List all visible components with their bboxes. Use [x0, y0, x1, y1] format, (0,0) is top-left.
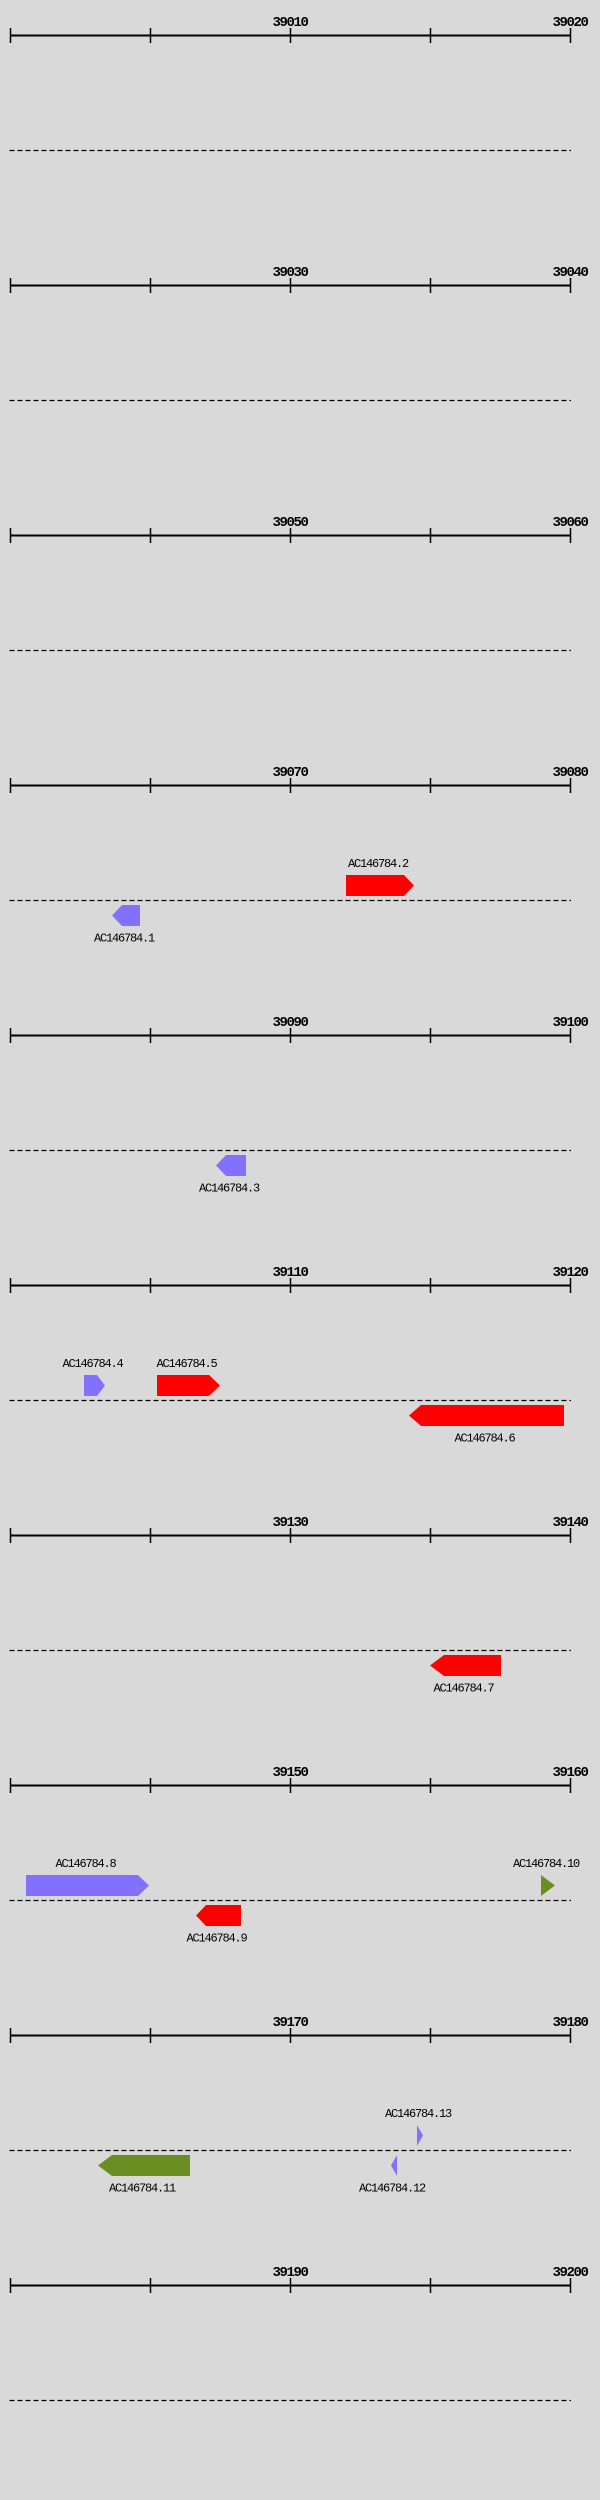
svg-text:39080: 39080: [552, 765, 588, 781]
gene feature arrow AC146784.11: [98, 2155, 190, 2176]
ruler axis panel 9: [10, 2028, 571, 2043]
svg-text:39070: 39070: [272, 765, 308, 781]
gene feature arrow AC146784.2: [346, 875, 414, 896]
svg-text:39110: 39110: [272, 1265, 308, 1281]
svg-text:39120: 39120: [552, 1265, 588, 1281]
svg-text:AC146784.8: AC146784.8: [55, 1857, 116, 1871]
ruler axis panel 5: [10, 1028, 571, 1043]
svg-text:39010: 39010: [272, 15, 308, 31]
gene feature arrow AC146784.4: [84, 1375, 105, 1396]
dashed sequence midline panel 1: [10, 150, 572, 152]
svg-text:AC146784.7: AC146784.7: [433, 1682, 494, 1696]
dashed sequence midline panel 6: [10, 1400, 572, 1402]
dashed sequence midline panel 3: [10, 650, 572, 652]
svg-text:39050: 39050: [272, 515, 308, 531]
svg-text:39100: 39100: [552, 1015, 588, 1031]
ruler axis panel 6: [10, 1278, 571, 1293]
gene feature arrow AC146784.9: [196, 1905, 241, 1926]
svg-text:AC146784.9: AC146784.9: [186, 1932, 247, 1946]
ruler axis panel 7: [10, 1528, 571, 1543]
gene feature arrow AC146784.6: [409, 1405, 564, 1426]
svg-text:39090: 39090: [272, 1015, 308, 1031]
svg-text:39200: 39200: [552, 2265, 588, 2281]
svg-text:AC146784.1: AC146784.1: [94, 932, 155, 946]
gene feature arrow AC146784.10: [541, 1875, 555, 1896]
dashed sequence midline panel 8: [10, 1900, 572, 1902]
svg-text:AC146784.2: AC146784.2: [348, 857, 409, 871]
svg-text:AC146784.6: AC146784.6: [454, 1432, 515, 1446]
gene feature arrow AC146784.5: [157, 1375, 220, 1396]
ruler axis panel 10: [10, 2278, 571, 2293]
ruler axis panel 8: [10, 1778, 571, 1793]
svg-text:39170: 39170: [272, 2015, 308, 2031]
ruler axis panel 4: [10, 778, 571, 793]
ruler axis panel 1: [10, 28, 571, 43]
svg-text:39180: 39180: [552, 2015, 588, 2031]
svg-text:AC146784.4: AC146784.4: [62, 1357, 123, 1371]
svg-text:39060: 39060: [552, 515, 588, 531]
svg-text:AC146784.12: AC146784.12: [359, 2182, 426, 2196]
dashed sequence midline panel 10: [10, 2400, 572, 2402]
gene feature arrow AC146784.3: [216, 1155, 246, 1176]
svg-text:39140: 39140: [552, 1515, 588, 1531]
dashed sequence midline panel 5: [10, 1150, 572, 1152]
svg-text:AC146784.3: AC146784.3: [199, 1182, 260, 1196]
svg-text:39020: 39020: [552, 15, 588, 31]
svg-text:39030: 39030: [272, 265, 308, 281]
svg-text:39130: 39130: [272, 1515, 308, 1531]
dashed sequence midline panel 7: [10, 1650, 572, 1652]
dashed sequence midline panel 4: [10, 900, 572, 902]
ruler axis panel 2: [10, 278, 571, 293]
dashed sequence midline panel 2: [10, 400, 572, 402]
svg-text:AC146784.11: AC146784.11: [109, 2182, 176, 2196]
dashed sequence midline panel 9: [10, 2150, 572, 2152]
gene feature arrow AC146784.7: [430, 1655, 501, 1676]
svg-text:AC146784.13: AC146784.13: [385, 2107, 452, 2121]
ruler axis panel 3: [10, 528, 571, 543]
svg-text:39150: 39150: [272, 1765, 308, 1781]
svg-text:39190: 39190: [272, 2265, 308, 2281]
gene feature arrow AC146784.12: [391, 2155, 397, 2176]
gene feature arrow AC146784.8: [26, 1875, 149, 1896]
gene feature arrow AC146784.13: [417, 2125, 423, 2146]
svg-text:AC146784.5: AC146784.5: [156, 1357, 217, 1371]
svg-text:AC146784.10: AC146784.10: [513, 1857, 580, 1871]
gene feature arrow AC146784.1: [112, 905, 140, 926]
svg-text:39160: 39160: [552, 1765, 588, 1781]
svg-text:39040: 39040: [552, 265, 588, 281]
